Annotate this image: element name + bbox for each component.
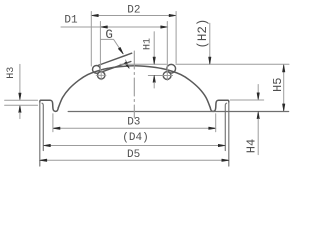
svg-text:(H2): (H2) [196,19,210,49]
svg-text:D1: D1 [64,14,78,26]
svg-text:D2: D2 [127,4,140,16]
dimension H5 [283,65,285,111]
svg-text:D3: D3 [127,116,140,128]
circle c3 right ferrule [167,64,176,73]
dimension D3 [53,127,216,129]
left lip corner [40,100,41,102]
left rim groove and lip [41,100,59,111]
top tangent reference line [120,63,166,65]
dome crown arc [58,66,210,108]
circle c2 left rod section [98,72,105,79]
D3 extension right [215,114,217,132]
svg-text:D5: D5 [127,149,140,161]
D2 extension right [175,12,177,64]
D1 extension right + c4 center mark vertical [166,22,168,81]
svg-text:H1: H1 [143,38,154,50]
G leader [101,39,123,53]
fitting socket pipe lower line [104,62,131,72]
fitting socket pipe upper line [98,53,132,65]
circle c1 left ferrule [93,66,101,74]
dimension H1 [153,32,155,64]
dimension D1 line [61,26,168,28]
c2 center mark [96,74,106,76]
circle c4 right rod section [163,72,171,80]
right outer skirt + D5 extension [228,102,230,166]
H3 reference stubs [5,99,38,101]
G leader second arrow [126,60,129,68]
svg-text:H3: H3 [6,67,17,79]
right inner skirt + D4 extension [225,103,226,150]
center line (dash-dot) [133,51,135,118]
D3 extension left [52,114,54,132]
c4 center mark horizontal + H1 lower reference [148,75,172,77]
dimension D2 line [91,15,176,17]
svg-text:H4: H4 [244,139,258,153]
D1 extension left [99,22,101,71]
mouth inner line [68,111,288,113]
left outer skirt + D5 extension [39,102,41,166]
right lip corner [228,100,229,102]
dimension H4 [257,85,259,93]
svg-text:H5: H5 [271,78,285,92]
left inner skirt + D4 extension [42,103,43,150]
D2 extension left [90,12,92,67]
dimension D4 [43,145,225,147]
H4 lip reference line [230,99,263,101]
svg-text:(D4): (D4) [122,132,148,144]
dimension D5 [40,159,229,161]
dimension H3 [19,64,21,93]
right rim groove and lip [210,100,228,111]
dimension (H2) [209,23,211,64]
